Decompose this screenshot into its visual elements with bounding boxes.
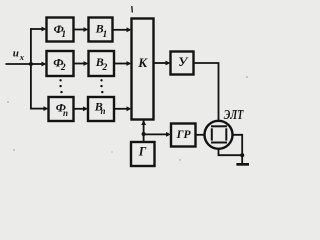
svg-text:n: n xyxy=(101,106,106,116)
ellipsis dots column F xyxy=(59,79,62,93)
wire input ux xyxy=(6,63,32,65)
svg-text:1: 1 xyxy=(61,30,66,40)
wire G to K with up arrow xyxy=(141,120,146,142)
node ux label xyxy=(13,47,25,61)
block G (sweep generator) xyxy=(131,142,155,166)
svg-text:n: n xyxy=(63,108,68,118)
svg-text:Г: Г xyxy=(138,144,147,158)
block B2 (rectifier channel 2) xyxy=(89,51,115,76)
wire branch to F1 xyxy=(30,27,46,32)
block F2 (filter channel 2) xyxy=(47,51,74,76)
block U (amplifier) xyxy=(171,52,194,75)
block K (commutator) xyxy=(132,19,154,120)
stray scan tick above K xyxy=(131,6,134,13)
block Bn (rectifier channel n) xyxy=(88,97,114,121)
block GR (horizontal deflection) xyxy=(171,124,196,147)
CRT ELT tube xyxy=(205,121,233,149)
wire B1 to K xyxy=(113,27,132,32)
wire branch to F2 xyxy=(31,62,47,67)
wire CRT bottom to ground junction xyxy=(219,149,243,155)
svg-text:2: 2 xyxy=(60,63,66,73)
wire CRT right to ground junction xyxy=(233,135,243,155)
node junction to GR xyxy=(142,132,146,136)
wire U to CRT top xyxy=(194,63,219,121)
svg-text:ГР: ГР xyxy=(176,129,192,141)
wire F2 to B2 xyxy=(74,61,89,66)
block B1 (rectifier channel 1) xyxy=(89,18,113,42)
svg-text:К: К xyxy=(137,55,148,70)
wire B2 to K xyxy=(114,61,132,66)
svg-text:x: x xyxy=(19,52,25,62)
scan speckles xyxy=(7,76,248,161)
wire K to U xyxy=(154,61,171,66)
ellipsis dots column B xyxy=(100,79,103,93)
node input junction xyxy=(29,62,33,66)
svg-text:1: 1 xyxy=(103,30,108,40)
node ground junction xyxy=(240,153,244,157)
wire Fn to Bn xyxy=(74,106,89,111)
block Fn (filter channel n) xyxy=(49,97,74,121)
wire F1 to B1 xyxy=(74,27,89,32)
paper background xyxy=(0,0,259,177)
svg-text:2: 2 xyxy=(102,63,108,73)
ground xyxy=(236,155,249,166)
wire input bus vertical xyxy=(30,28,32,109)
svg-text:u: u xyxy=(13,47,19,59)
block F1 (filter channel 1) xyxy=(47,18,74,42)
wire GR to CRT left xyxy=(196,134,205,136)
wire Bn to K xyxy=(114,106,132,111)
wire junction to GR xyxy=(144,132,171,137)
svg-text:ЭЛТ: ЭЛТ xyxy=(224,107,244,122)
wire branch to Fn xyxy=(30,106,48,111)
